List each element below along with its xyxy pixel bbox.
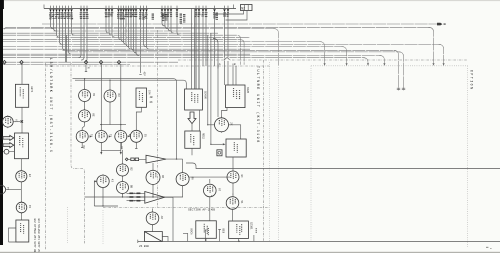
wire bus V12 y=49.2 bbox=[3, 48, 250, 50]
svg-text:4O: 4O bbox=[161, 175, 164, 179]
wire Q201 chain down bbox=[84, 102, 86, 110]
pilot lamp small circle bbox=[4, 149, 9, 154]
svg-text:A1: A1 bbox=[14, 119, 17, 123]
bus pair y78.7/80.2 bbox=[73, 79, 177, 155]
svg-text:ROS2: ROS2 bbox=[201, 133, 204, 140]
svg-text:15: 15 bbox=[28, 205, 31, 209]
driver M301 (195.8,220.8) bbox=[196, 221, 217, 239]
faint verticals bottom-left bbox=[68, 207, 103, 244]
IC U201 (184.6,89) bbox=[185, 89, 207, 110]
connector pin P29 bbox=[170, 6, 174, 34]
capacitor across pair bbox=[397, 88, 405, 89]
wire Q217 to M301 bbox=[209, 197, 211, 221]
wire Q211 down to Q213 bbox=[232, 184, 234, 197]
node diamond (119,62.2) bbox=[117, 60, 120, 64]
wire BZ301 bottom to rail bbox=[238, 239, 240, 242]
connector pin P21 bbox=[132, 6, 136, 53]
wire drops to Q201/Q202 bbox=[85, 79, 110, 90]
wires from N2 box bbox=[215, 11, 248, 21]
wire box X101 bottom chain bbox=[20, 159, 22, 171]
dashed interconnect box top edge bbox=[311, 65, 468, 67]
wire Q208 right corner down bbox=[229, 125, 241, 139]
wire Q209 top/bottom bbox=[152, 163, 154, 197]
connector rail wire bbox=[44, 8, 236, 10]
svg-text:TULTNRE UNIT (KST-3198: TULTNRE UNIT (KST-3198 bbox=[255, 66, 260, 144]
U2 input resistor rows bbox=[127, 192, 145, 194]
wire U1 out to Q210 bbox=[166, 155, 183, 159]
det D201 (226,139) bbox=[226, 139, 246, 157]
capacitor C210 small can bbox=[217, 150, 222, 156]
connector arrow at (368.0,65.8) bbox=[367, 63, 369, 65]
top edge smear bbox=[0, 0, 500, 1]
wire FL201 bottom stub bbox=[191, 148, 193, 155]
wire bus V5 y=33.2 bbox=[3, 32, 218, 34]
connector arrow at (324.6,65.8) bbox=[324, 63, 326, 65]
node diamond (4.4,62.2) bbox=[3, 60, 6, 64]
transistor Q210 (182.6,179.1) bbox=[176, 172, 193, 187]
wire bus corner x=278.5 bbox=[274, 29, 279, 66]
wire M301 bottom to rail bbox=[205, 238, 207, 241]
oscillator X101 box (14.5,133) bbox=[15, 133, 29, 159]
transistor Q104 (edge clipped) bbox=[0, 185, 6, 194]
ground rail y241.3 bbox=[138, 241, 500, 243]
svg-text:2K: 2K bbox=[150, 101, 154, 104]
connector pin P25 bbox=[145, 6, 149, 50]
svg-text:2C: 2C bbox=[230, 122, 233, 126]
N2 junction box top right bbox=[241, 5, 253, 11]
wire N201 to Q208 bbox=[222, 108, 228, 118]
U1 input parts bbox=[131, 158, 134, 161]
svg-text:KOCA: KOCA bbox=[190, 229, 193, 236]
svg-text:4A2 K7T5E8 2P1 03TY 8B: 4A2 K7T5E8 2P1 03TY 8B bbox=[33, 218, 36, 253]
buzzer BZ301 (228.7,221) bbox=[229, 221, 249, 239]
wire bus corner x=403.5 bbox=[399, 52, 404, 91]
op-amp U3 (boxed) bbox=[144, 232, 162, 242]
unit boundary dash-dot y66 bbox=[46, 65, 271, 67]
wire Q202 down to bus y124.6 bbox=[109, 102, 111, 125]
connector pin P33 bbox=[202, 6, 205, 66]
wire Q210 down bbox=[182, 186, 184, 197]
hollow signal arrow down bbox=[188, 112, 196, 124]
wire bus V2 y=27.3 bbox=[4, 27, 430, 29]
connector pin P6 bbox=[64, 6, 67, 63]
svg-text:KE: KE bbox=[92, 113, 95, 117]
svg-text:8C: 8C bbox=[240, 175, 243, 179]
connector pin P34 bbox=[205, 6, 208, 66]
connector pin P31 bbox=[195, 6, 198, 89]
wire Q101 collector to node bbox=[13, 121, 20, 123]
wire Q216 top stub bbox=[152, 209, 154, 213]
wire Q102-Q103 bbox=[20, 182, 22, 202]
wire bus V8 y=39.7 bbox=[3, 40, 244, 65]
connector pin P26 bbox=[161, 6, 165, 26]
NR N201 (225.6,85) bbox=[226, 85, 250, 108]
node B (233,66) bbox=[232, 64, 234, 69]
wire RY101 bottom bbox=[21, 107, 23, 133]
transistor Q103 (21.5,207.5) bbox=[16, 201, 31, 214]
transistor Q206 (120.8,136.5) bbox=[115, 130, 131, 144]
transistor Q101 (7.8,121.7) bbox=[2, 115, 17, 128]
Q204 emitter marks bbox=[81, 143, 83, 148]
wire bus V4 y=31.0 bbox=[54, 30, 192, 32]
wire bus V11 y=46.6 bbox=[3, 46, 344, 48]
filter FL201 (184.8,131) bbox=[185, 131, 205, 148]
rail stub S5 bbox=[253, 235, 255, 241]
svg-text:51: 51 bbox=[240, 201, 243, 205]
connector pin P36 bbox=[223, 6, 226, 85]
connector pin P24 bbox=[142, 6, 146, 47]
connector pin P32 bbox=[198, 6, 201, 89]
wire bus corner x=368.0 bbox=[363, 58, 368, 65]
wire D201 bottom to Q211 bbox=[232, 157, 234, 171]
connector pin P8 bbox=[70, 6, 74, 36]
connector arrow at (346.6,65.8) bbox=[346, 63, 348, 65]
dashed interconnect box right edge bbox=[467, 66, 469, 247]
input arrow A2 (hollow) bbox=[3, 143, 14, 148]
wire Q215 loop bbox=[94, 181, 118, 206]
rail start stub bbox=[43, 5, 45, 9]
wire Q217 top bbox=[209, 179, 211, 183]
arrow into D201 left bbox=[211, 143, 223, 145]
relay RY101 box (15.4,84.3) bbox=[15, 84, 33, 107]
resistor R210 box (136,88) bbox=[136, 88, 151, 107]
wire x122.5 chain bbox=[122, 143, 123, 198]
wire RY101 top to diamond bbox=[21, 64, 23, 84]
connector pin P23 bbox=[139, 6, 142, 73]
node x (21.8,121.5) bbox=[21, 120, 23, 122]
transistor Q207 (136.3,136.3) bbox=[130, 129, 146, 143]
connector pin P28 bbox=[167, 6, 171, 31]
node diamond (126.7,159.3) bbox=[125, 158, 128, 161]
svg-text:E2: E2 bbox=[28, 174, 31, 178]
node diamond (86,62.2) bbox=[84, 60, 87, 64]
wire arrow to FL201 bbox=[192, 110, 200, 131]
svg-text:T5: T5 bbox=[6, 187, 9, 191]
rail junction S4 bbox=[238, 241, 240, 243]
unit boundary 1b x71 with jog bbox=[71, 63, 85, 244]
transistor Q202 (110,96) bbox=[104, 89, 120, 103]
connector pin P30 bbox=[176, 6, 180, 36]
wire Q208 left bbox=[208, 124, 215, 126]
bus y124.6 bbox=[100, 124, 126, 126]
connector pin P4 bbox=[58, 6, 62, 45]
wire bus V3 y=28.6 bbox=[3, 28, 276, 30]
wire bus corner x=433.5 bbox=[428, 27, 434, 65]
svg-text:4A3 5CL2E8 2P1 08TY 2C: 4A3 5CL2E8 2P1 08TY 2C bbox=[37, 218, 40, 253]
connector pin P3 bbox=[55, 6, 59, 38]
transistor Q208 (221.5,124.8) bbox=[215, 117, 233, 133]
svg-text:B8T1: B8T1 bbox=[30, 86, 33, 93]
transistor Q204 (82.2,136.5) bbox=[76, 130, 92, 144]
svg-text:AO: AO bbox=[160, 216, 163, 220]
connector pin P37 bbox=[227, 6, 230, 85]
rail end stub bbox=[233, 5, 235, 9]
extra pin label columns bbox=[162, 13, 164, 16]
connector arrow at (384.4,65.8) bbox=[383, 63, 385, 65]
transistor Q217 (211.6,202.6) bbox=[204, 184, 221, 210]
wire bus V16 y=55.5 bbox=[3, 55, 381, 57]
wire bus corner x=324.6 bbox=[319, 42, 324, 66]
stub node x86 bbox=[85, 64, 87, 72]
dashed interconnect box left edge bbox=[310, 66, 312, 241]
wire bus V20 y=64.6 bbox=[3, 64, 130, 66]
connector pin P19 bbox=[127, 6, 131, 50]
connector pin P17 bbox=[122, 6, 126, 45]
connector pin P11 bbox=[84, 6, 89, 63]
op-amp U1 bbox=[146, 155, 166, 163]
svg-text:BB: BB bbox=[130, 185, 133, 189]
wire R210 bottom to Q207 bbox=[136, 107, 141, 130]
svg-text:B74: B74 bbox=[148, 90, 151, 95]
emitter rail y150.4 with down arrows bbox=[101, 143, 121, 151]
wire bus V19 y=62.2 bbox=[3, 61, 178, 63]
vertical feeders x207.8/x210.9 bbox=[208, 33, 211, 144]
connector pin P5 bbox=[61, 6, 66, 51]
rail stub S3 bbox=[218, 230, 221, 242]
transistor Q102 (21.3,176.3) bbox=[16, 170, 31, 183]
rail stub S2 bbox=[204, 230, 207, 241]
wire bus corner x=346.6 bbox=[342, 47, 347, 66]
wire Q103 to box B3 bbox=[21, 213, 23, 220]
wire feeds row from bus y124.6 bbox=[101, 64, 121, 131]
wire bus V6 y=35.2 bbox=[3, 35, 241, 65]
connector pin P10 bbox=[81, 6, 85, 61]
wire Q216 to U3 bbox=[152, 225, 154, 232]
wire U2 out bbox=[165, 197, 173, 241]
T101 left stub bbox=[9, 228, 16, 242]
wire U1 out down to Q210 bbox=[182, 159, 184, 173]
arrow terminal of bus V1 bbox=[437, 23, 442, 26]
connector pin P1 bbox=[49, 6, 53, 29]
connector pin P27 bbox=[164, 6, 168, 29]
connector pin P2 bbox=[52, 6, 57, 31]
Q207 emitter stub bbox=[135, 142, 137, 148]
node A (218,66) bbox=[217, 64, 219, 69]
connector pin P7 bbox=[67, 6, 71, 55]
transistor Q211 (236,175) bbox=[227, 170, 243, 184]
wires into N201 top bbox=[225, 66, 237, 85]
wire bus V9 y=41.6 bbox=[3, 41, 321, 43]
transistor Q215 (103,181.3) bbox=[97, 174, 114, 188]
wire bus V13 y=50.3 bbox=[63, 49, 396, 51]
connector pin P12 bbox=[105, 6, 109, 34]
transformer T101 box (15.9,220) bbox=[16, 220, 29, 242]
wire bus corner x=443.6 bbox=[439, 44, 444, 65]
svg-text:SECTION AF-2 0B: SECTION AF-2 0B bbox=[188, 209, 215, 212]
transistor Q209 (153,177.4) bbox=[146, 169, 164, 185]
wire bus V17 y=57.7 bbox=[3, 57, 365, 59]
svg-text:BE45M: BE45M bbox=[204, 91, 207, 99]
unit boundary 1 dash-dot x45.5 bbox=[45, 63, 47, 250]
wire x66.5 drop bbox=[66, 35, 68, 62]
svg-text:2S B2B: 2S B2B bbox=[139, 245, 149, 248]
connector pin P13 bbox=[108, 6, 112, 36]
unit boundary 3 x269 bbox=[263, 60, 265, 241]
transistor Q201 (84.6,95.5) bbox=[79, 89, 95, 103]
wire bus V1 long top y=24.0 bbox=[42, 23, 437, 25]
transistor Q212 (122.5,170) bbox=[117, 163, 133, 177]
connector pin P16 bbox=[120, 6, 124, 42]
rail y197 bbox=[85, 196, 183, 198]
wire Q218 to BZ301 bbox=[232, 209, 234, 221]
connector pin P20 bbox=[130, 6, 134, 51]
svg-text:43: 43 bbox=[110, 179, 113, 183]
transistor Q214 (122.5,187.5) bbox=[117, 181, 133, 195]
wire Q210 to Q211 bbox=[189, 176, 230, 178]
connector pin P14 bbox=[111, 6, 115, 38]
wire bus V10 y=44.4 bbox=[60, 43, 441, 45]
transistor Q203 (84.5,115.9) bbox=[79, 109, 95, 123]
connector pin P18 bbox=[125, 6, 129, 47]
wire x218 drop bbox=[213, 39, 218, 118]
svg-text:45P: 45P bbox=[143, 72, 146, 77]
unit boundary 2 x157.4 bbox=[156, 30, 158, 207]
connector pin P35 bbox=[213, 6, 216, 66]
unit boundary horizontal y207.4 bbox=[103, 206, 269, 208]
svg-text:BE8: BE8 bbox=[221, 229, 224, 234]
node diamond (101,62.2) bbox=[99, 60, 102, 64]
wire Q203 down to Q204 bbox=[82, 122, 84, 131]
wire bus V15 y=54.2 bbox=[3, 53, 250, 55]
transistor Q218 (232.9,200.9) bbox=[226, 194, 243, 210]
rail stub S1 bbox=[183, 233, 188, 241]
bottom edge smear bbox=[0, 252, 500, 253]
unit boundary dash-dot y60 bbox=[178, 59, 467, 61]
svg-text:S5: S5 bbox=[144, 134, 147, 138]
long signal wire y168.8 bbox=[186, 163, 500, 169]
input arrow A1 (hollow) bbox=[3, 135, 14, 140]
svg-text:L30/L07ARK UNIT (KST-3198-X: L30/L07ARK UNIT (KST-3198-X bbox=[48, 58, 53, 153]
connector arrow at (443.6,65.8) bbox=[443, 63, 445, 65]
connector arrow at (433.5,65.8) bbox=[432, 63, 434, 65]
svg-text:0T: 0T bbox=[217, 188, 220, 192]
connector pin P9 bbox=[78, 6, 82, 58]
svg-text:NR2M: NR2M bbox=[246, 87, 249, 94]
transistor Q205 (101.3,136.5) bbox=[95, 130, 111, 144]
node diamond (21.5,62.2) bbox=[20, 60, 23, 64]
coupling arrows between row transistors bbox=[90, 135, 92, 137]
wire hop at (227,60) bbox=[225, 58, 230, 61]
corner specks bbox=[486, 247, 488, 248]
tick label on feed wire bbox=[139, 74, 141, 76]
connector pin P22 bbox=[135, 6, 139, 56]
svg-text:B2: B2 bbox=[130, 168, 133, 172]
op-amp U2 bbox=[145, 192, 165, 204]
wire bus V14 y=51.9 bbox=[65, 51, 401, 53]
wire bus corner x=398.5 bbox=[394, 50, 399, 90]
svg-text:O3: O3 bbox=[117, 94, 120, 98]
wire dotted drop x278.5 bbox=[278, 65, 280, 241]
svg-text:OPTION: OPTION bbox=[470, 70, 474, 90]
wire Q101 base from bar bbox=[1, 121, 4, 123]
wire U3 out bbox=[162, 237, 168, 242]
wires into U201 top bbox=[192, 9, 200, 90]
svg-text:BZ301: BZ301 bbox=[249, 222, 252, 230]
svg-text:N2: N2 bbox=[241, 6, 245, 10]
transistor Q216 (152.5,218.3) bbox=[146, 211, 163, 226]
wire arrow into Q215 bbox=[94, 180, 97, 182]
connector pin P15 bbox=[117, 6, 122, 40]
svg-text:4B: 4B bbox=[150, 96, 154, 99]
left black border bar bbox=[0, 0, 3, 245]
wire bus V7 y=37.3 bbox=[57, 36, 251, 38]
svg-text:C0: C0 bbox=[92, 93, 95, 97]
wire Q104 to chain bbox=[6, 189, 22, 191]
wire bus corner x=384.4 bbox=[379, 56, 384, 66]
